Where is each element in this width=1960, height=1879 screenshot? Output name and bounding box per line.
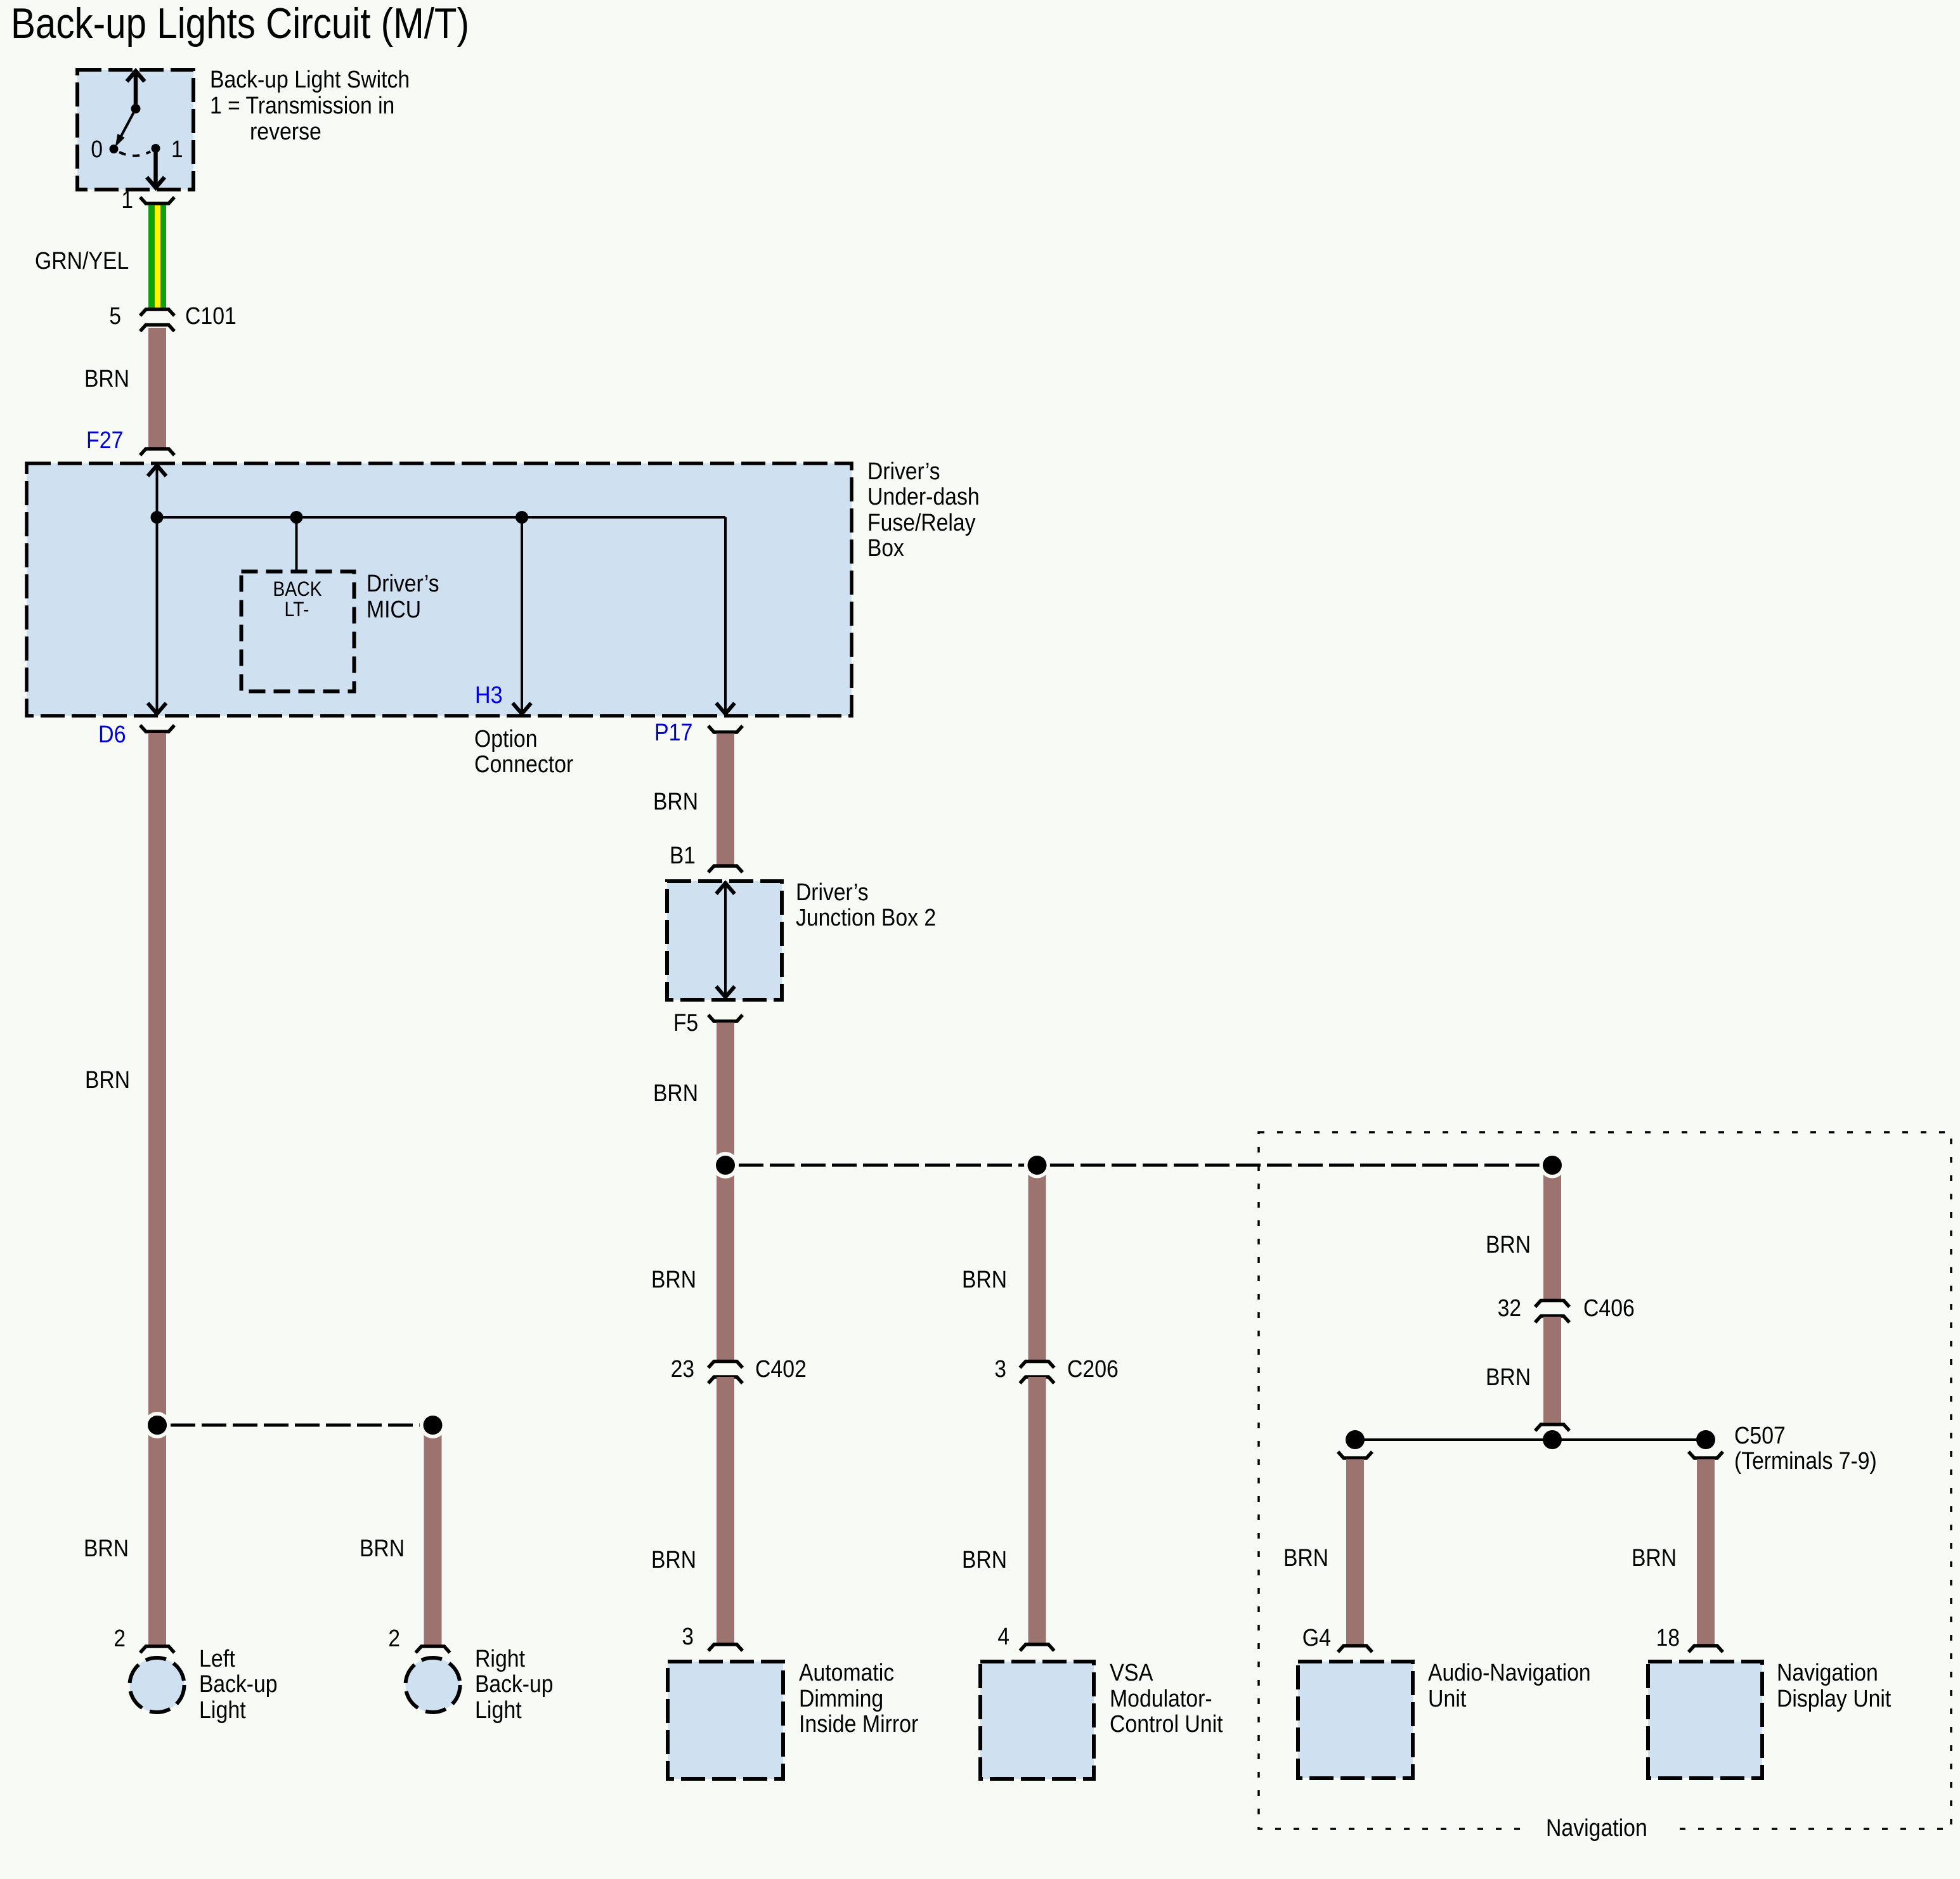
connector bracket B1 [708,866,743,872]
svg-text:Option: Option [474,726,538,752]
svg-text:F5: F5 [673,1010,698,1036]
right back-up light bulb [406,1658,460,1712]
svg-text:B1: B1 [670,843,696,869]
svg-text:D6: D6 [98,721,126,748]
junction node left lights dot overdraw [148,1416,167,1435]
svg-text:3: 3 [682,1624,694,1650]
svg-text:C406: C406 [1583,1295,1635,1322]
in-line connector C402 [708,1362,743,1384]
svg-text:BRN: BRN [651,1547,696,1573]
switch S1 common terminal arrow (up) [127,71,145,109]
connector bracket D6 [140,725,174,732]
svg-text:BRN: BRN [962,1267,1007,1293]
junction dot navigation branch [1543,1156,1562,1175]
svg-text:Dimming: Dimming [799,1686,883,1712]
switch S1 terminal 1 arrow (down) [147,148,165,188]
svg-text:BRN: BRN [1486,1364,1531,1391]
svg-text:BRN: BRN [653,1080,698,1107]
wire BRN from C206 to VSA unit [1029,1377,1046,1643]
svg-text:Control Unit: Control Unit [1110,1711,1223,1738]
svg-text:BRN: BRN [1486,1232,1531,1258]
svg-text:Back-up: Back-up [475,1671,553,1698]
svg-text:C206: C206 [1067,1356,1119,1383]
svg-text:23: 23 [671,1356,694,1383]
svg-text:Modulator-: Modulator- [1110,1686,1212,1712]
fuse box branch down to H3 [521,517,523,714]
svg-text:Light: Light [199,1697,246,1724]
svg-text:0: 0 [91,136,103,163]
svg-text:GRN/YEL: GRN/YEL [35,248,129,274]
automatic dimming inside mirror box [668,1662,783,1779]
svg-text:BRN: BRN [360,1535,405,1562]
svg-text:Under-dash: Under-dash [867,484,980,510]
svg-text:Driver’s: Driver’s [367,571,439,597]
gap in border for Navigation caption [1527,1818,1671,1840]
dashed tie line mirror to nav [739,1164,1552,1167]
wire BRN to right back-up light [424,1425,442,1645]
white notch at mirror junction [712,1152,739,1178]
arrowhead to F5 [717,986,735,997]
connector bracket at VSA unit [1020,1644,1055,1651]
svg-text:Driver’s: Driver’s [796,879,869,906]
wire BRN from D6 to junction [148,733,166,1645]
fuse box internal vertical wire F27-D6 [156,466,159,714]
switch S1 wiper arm (arrow to terminal 0) [116,109,136,146]
C507 dot center [1543,1430,1562,1449]
white notch at VSA junction [1024,1153,1050,1178]
svg-text:F27: F27 [86,427,124,454]
C507 terminal bus line [1355,1438,1706,1441]
svg-text:Fuse/Relay: Fuse/Relay [867,510,976,536]
arrowhead to D6 [148,703,166,714]
wire BRN from tie line to C206 [1029,1172,1046,1360]
svg-text:Back-up: Back-up [199,1671,277,1698]
C507 dot left [1346,1430,1365,1449]
svg-text:C402: C402 [755,1356,807,1383]
wire BRN C507 to audio-navigation unit [1346,1459,1364,1644]
wire BRN from C402 to mirror [717,1377,734,1643]
svg-text:C101: C101 [185,303,237,330]
svg-text:Back-up Lights Circuit (M/T): Back-up Lights Circuit (M/T) [11,0,469,48]
svg-text:Light: Light [475,1697,522,1724]
svg-text:Connector: Connector [474,751,574,778]
dashed tie line between back-up lights [171,1424,432,1427]
C507 dot right [1696,1430,1715,1449]
svg-text:BRN: BRN [651,1267,696,1293]
svg-text:Driver’s: Driver’s [867,458,940,485]
driver junction box 2 [667,881,782,1000]
svg-text:Junction Box 2: Junction Box 2 [796,905,936,931]
svg-text:Back-up Light Switch: Back-up Light Switch [210,67,410,93]
arrowhead into F27 [148,465,166,476]
connector bracket below C507 left [1338,1452,1372,1458]
svg-text:BRN: BRN [962,1547,1007,1573]
in-line connector C101 [140,309,174,332]
connector bracket F5 [708,1015,743,1021]
junction dot right light wire [424,1416,443,1435]
arrowhead to H3 [513,703,531,714]
svg-text:2: 2 [114,1625,126,1652]
navigation display unit box [1648,1662,1762,1778]
connector bracket at switch pin 1 [140,197,174,203]
switch S1 terminal 1 dot [152,144,160,153]
wire BRN C507 to navigation display unit [1697,1459,1715,1644]
svg-text:Display Unit: Display Unit [1777,1686,1892,1712]
svg-text:1: 1 [171,136,183,163]
wire BRN from C101 to F27 [148,328,166,448]
driver MICU BACK LT- sub-box [242,572,354,692]
wire BRN nav drop to C406 [1543,1172,1561,1300]
svg-text:VSA: VSA [1110,1660,1153,1686]
junction dot VSA branch [1028,1156,1047,1175]
connector bracket at mirror [708,1644,743,1651]
connector bracket at left light [140,1646,174,1653]
svg-text:Inside Mirror: Inside Mirror [799,1711,919,1738]
wire GRN/YEL from switch pin 1 to C101 [148,205,166,309]
VSA modulator-control unit box [980,1662,1094,1779]
fuse box branch down to P17 [724,517,727,714]
left back-up light bulb [130,1658,185,1712]
connector bracket at right light [416,1646,450,1653]
svg-text:Automatic: Automatic [799,1660,894,1686]
wire BRN from F5 to C402 [717,1023,734,1360]
connector bracket at audio-navigation unit [1338,1646,1372,1652]
connector bracket at navigation display unit [1689,1646,1723,1652]
svg-text:Unit: Unit [1428,1686,1467,1712]
in-line connector C206 [1020,1362,1055,1384]
svg-text:Box: Box [867,535,904,562]
svg-text:1: 1 [121,187,133,214]
switch S1 pivot dot [131,104,141,113]
svg-text:BRN: BRN [85,1067,130,1094]
svg-text:BRN: BRN [1283,1545,1328,1572]
junction node left lights [144,1412,171,1438]
white notch at nav junction [1540,1153,1566,1178]
junction dot mirror branch [716,1156,735,1175]
wire BRN from C406 to C507 [1543,1317,1561,1423]
switch S1 throw arc (dashed) [119,152,150,156]
wire BRN from P17 to B1 [717,733,734,865]
switch S1 terminal 0 dot [110,145,119,153]
svg-text:Left: Left [199,1646,235,1672]
svg-text:C507: C507 [1734,1423,1786,1449]
svg-text:Audio-Navigation: Audio-Navigation [1428,1660,1591,1686]
svg-text:BRN: BRN [1632,1545,1677,1572]
svg-text:2: 2 [388,1625,400,1652]
svg-text:5: 5 [109,303,121,330]
svg-text:Navigation: Navigation [1546,1815,1647,1842]
junction node on D6 line [151,511,164,524]
driver under-dash fuse/relay box [27,463,852,716]
connector bracket F27 [140,449,174,455]
svg-text:reverse: reverse [250,119,321,145]
fuse box internal bus line [157,516,726,519]
svg-text:4: 4 [997,1624,1009,1650]
junction node at H3 branch [516,511,528,524]
svg-text:(Terminals 7-9): (Terminals 7-9) [1734,1448,1877,1475]
svg-text:P17: P17 [654,720,692,746]
svg-text:18: 18 [1656,1625,1680,1651]
navigation system boundary (dotted) [1259,1132,1951,1829]
svg-text:H3: H3 [475,682,503,709]
svg-text:BACK: BACK [273,578,321,600]
connector bracket C507 center [1535,1424,1569,1431]
svg-text:3: 3 [994,1356,1006,1383]
audio-navigation unit box [1298,1662,1413,1778]
junction box 2 internal wire [724,884,727,997]
junction node at MICU branch [290,511,303,524]
svg-text:BRN: BRN [84,1535,129,1562]
svg-text:BRN: BRN [84,366,129,392]
svg-text:G4: G4 [1302,1625,1331,1651]
back-up light switch S1 box [77,70,193,190]
white notch on right light wire top [420,1412,446,1438]
svg-text:32: 32 [1498,1295,1521,1322]
svg-text:LT-: LT- [284,598,309,621]
fuse box branch to MICU [295,517,298,571]
arrowhead to P17 [717,703,735,714]
arrowhead into B1 [717,883,735,894]
connector bracket below C507 right [1689,1452,1723,1458]
in-line connector C406 [1535,1301,1569,1323]
svg-text:1 = Transmission in: 1 = Transmission in [210,93,394,119]
svg-text:Navigation: Navigation [1777,1660,1878,1686]
svg-text:Right: Right [475,1646,525,1672]
svg-text:MICU: MICU [367,597,421,623]
svg-text:BRN: BRN [653,789,698,815]
connector bracket P17 [708,726,743,732]
